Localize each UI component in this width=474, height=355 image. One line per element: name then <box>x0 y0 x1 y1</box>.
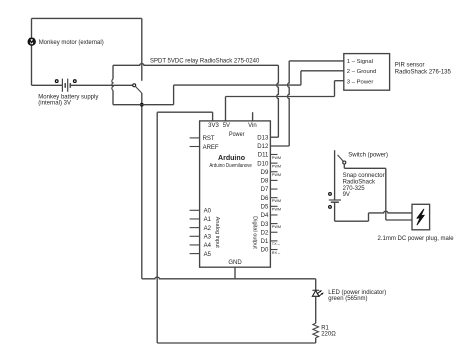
svg-text:3V3: 3V3 <box>208 123 219 129</box>
svg-text:PWM: PWM <box>272 156 281 160</box>
svg-text:3 – Power: 3 – Power <box>347 79 374 85</box>
svg-text:D10: D10 <box>257 161 269 167</box>
svg-text:Analog input: Analog input <box>214 217 220 249</box>
svg-text:1 – Signal: 1 – Signal <box>347 59 373 65</box>
svg-text:A5: A5 <box>204 252 212 258</box>
svg-text:2 – Ground: 2 – Ground <box>347 69 376 75</box>
svg-text:D3: D3 <box>261 222 269 228</box>
svg-text:SPDT 5VDC relay RadioShack 275: SPDT 5VDC relay RadioShack 275-0240 <box>150 58 260 64</box>
svg-text:A1: A1 <box>204 217 212 223</box>
svg-text:D6: D6 <box>261 196 269 202</box>
svg-text:D4: D4 <box>261 213 269 219</box>
svg-text:(internal) 3V: (internal) 3V <box>38 101 71 107</box>
svg-text:R1: R1 <box>321 326 329 332</box>
svg-text:D5: D5 <box>261 205 269 211</box>
svg-text:PWM: PWM <box>272 164 281 168</box>
svg-text:D1: D1 <box>261 239 269 245</box>
svg-text:2.1mm DC power plug, male: 2.1mm DC power plug, male <box>378 236 455 242</box>
svg-text:D0: D0 <box>261 248 269 254</box>
svg-text:9V: 9V <box>343 192 350 198</box>
svg-text:PIR sensor: PIR sensor <box>395 63 425 69</box>
svg-text:RST: RST <box>203 136 215 142</box>
svg-text:Arduino: Arduino <box>218 155 245 162</box>
svg-text:Monkey motor (external): Monkey motor (external) <box>39 40 104 46</box>
svg-text:PWM: PWM <box>272 173 281 177</box>
svg-text:D11: D11 <box>258 153 269 159</box>
svg-text:Vin: Vin <box>248 123 257 129</box>
svg-text:RadioShack 276-135: RadioShack 276-135 <box>395 70 452 76</box>
svg-text:PWM: PWM <box>272 208 281 212</box>
svg-text:A4: A4 <box>204 243 212 249</box>
svg-text:TX→: TX→ <box>272 242 281 246</box>
svg-text:RX←: RX← <box>272 251 281 255</box>
svg-text:Snap connector: Snap connector <box>343 173 385 179</box>
svg-text:D8: D8 <box>261 179 269 185</box>
svg-text:270-325: 270-325 <box>343 186 366 192</box>
svg-text:D13: D13 <box>257 135 269 141</box>
svg-text:GND: GND <box>228 260 242 266</box>
svg-text:Power: Power <box>229 132 244 138</box>
svg-text:5V: 5V <box>223 123 230 129</box>
svg-text:D2: D2 <box>261 230 269 236</box>
svg-text:A3: A3 <box>204 234 212 240</box>
svg-text:PWM: PWM <box>272 199 281 203</box>
svg-text:AREF: AREF <box>203 145 219 151</box>
svg-text:A0: A0 <box>204 209 212 215</box>
svg-text:A2: A2 <box>204 226 212 232</box>
svg-text:RadioShack: RadioShack <box>343 179 376 185</box>
svg-text:PWM: PWM <box>272 225 281 229</box>
svg-text:D7: D7 <box>261 187 269 193</box>
svg-text:Arduino Duemilanove: Arduino Duemilanove <box>209 163 252 169</box>
svg-text:D9: D9 <box>261 170 269 176</box>
svg-text:D12: D12 <box>257 144 269 150</box>
svg-text:green (565nm): green (565nm) <box>328 296 367 302</box>
svg-text:Switch (power): Switch (power) <box>348 153 388 159</box>
svg-text:220Ω: 220Ω <box>321 332 336 338</box>
svg-text:Digital output: Digital output <box>252 216 258 249</box>
